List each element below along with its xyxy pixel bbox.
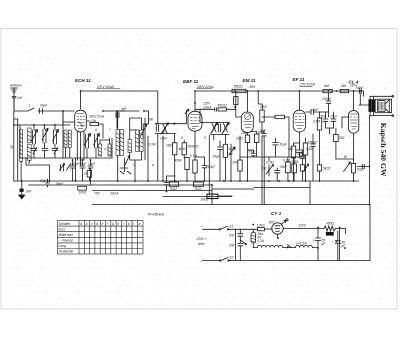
svg-text:55pF: 55pF	[79, 162, 87, 166]
svg-text:50pF: 50pF	[40, 179, 48, 183]
svg-text:0,1M: 0,1M	[267, 161, 274, 165]
svg-text:240V: 240V	[259, 105, 268, 109]
svg-text:1k: 1k	[84, 172, 88, 176]
svg-text:b: b	[139, 222, 141, 226]
svg-text:80V: 80V	[250, 85, 257, 89]
svg-text:30k: 30k	[233, 161, 239, 165]
svg-text:g: g	[112, 222, 114, 226]
svg-text:240V 22mA: 240V 22mA	[196, 85, 214, 89]
svg-text:170V 10mA: 170V 10mA	[97, 85, 114, 89]
svg-text:400k: 400k	[175, 159, 182, 163]
svg-text:EM 11: EM 11	[243, 78, 256, 83]
svg-text:0,1M: 0,1M	[306, 147, 313, 151]
svg-text:7kΩ2: 7kΩ2	[170, 187, 178, 191]
svg-text:2MΩ: 2MΩ	[235, 137, 243, 141]
svg-text:CY 1: CY 1	[271, 211, 282, 216]
svg-text:10µF: 10µF	[280, 143, 288, 147]
svg-text:E1: E1	[230, 225, 234, 229]
svg-text:50kΩ2: 50kΩ2	[218, 104, 228, 108]
svg-text:2: 2	[124, 161, 127, 165]
svg-text:Lang: Lang	[59, 244, 66, 248]
svg-text:5kΩ2: 5kΩ2	[323, 167, 331, 171]
svg-text:EBF 11: EBF 11	[183, 79, 199, 84]
svg-text:500: 500	[339, 136, 345, 140]
svg-text:110V: 110V	[299, 224, 307, 228]
svg-text:20µF: 20µF	[212, 155, 221, 159]
svg-text:0,3M: 0,3M	[291, 160, 298, 164]
svg-text:68nF: 68nF	[56, 182, 64, 186]
svg-text:+: +	[313, 239, 315, 243]
svg-text:1MΩ: 1MΩ	[166, 144, 173, 148]
svg-text:6: 6	[181, 136, 183, 140]
svg-text:50k: 50k	[148, 118, 154, 122]
svg-text:+50µF: +50µF	[206, 165, 216, 169]
svg-text:2nF: 2nF	[297, 152, 305, 156]
svg-text:0,2M: 0,2M	[229, 147, 236, 151]
svg-text:50kΩ2: 50kΩ2	[234, 85, 244, 89]
svg-text:450Ω: 450Ω	[326, 222, 334, 226]
svg-text:10M: 10M	[241, 131, 248, 135]
svg-text:0,1A: 0,1A	[258, 239, 265, 243]
svg-text:6k8: 6k8	[324, 84, 329, 88]
svg-text:4kΩ2: 4kΩ2	[178, 147, 186, 151]
svg-text:5k8: 5k8	[341, 84, 346, 88]
svg-text:30: 30	[10, 145, 14, 149]
svg-text:180V 2mA: 180V 2mA	[89, 115, 104, 119]
svg-text:10V 52mA: 10V 52mA	[300, 83, 315, 87]
svg-text:a: a	[152, 163, 154, 167]
svg-text:IF≈468 kHz: IF≈468 kHz	[148, 213, 165, 217]
svg-text:75V: 75V	[94, 192, 101, 196]
svg-text:0,1M: 0,1M	[190, 154, 197, 158]
svg-text:2k2: 2k2	[287, 147, 293, 151]
svg-text:a: a	[80, 222, 82, 226]
svg-text:1M: 1M	[262, 167, 267, 171]
svg-text:50nF: 50nF	[356, 86, 364, 90]
svg-text:3: 3	[133, 163, 135, 167]
svg-text:7: 7	[109, 128, 111, 132]
svg-text:100Ω: 100Ω	[79, 191, 87, 195]
svg-text:10nF: 10nF	[88, 162, 96, 166]
svg-text:6: 6	[95, 128, 97, 132]
svg-text:120Ω: 120Ω	[257, 224, 265, 228]
svg-text:Antenne: Antenne	[9, 84, 22, 88]
svg-text:500pF: 500pF	[308, 141, 318, 145]
svg-text:Mittel,kurz: Mittel,kurz	[59, 233, 74, 237]
svg-text:10nF: 10nF	[160, 137, 168, 141]
svg-text:Kapsch 540 GW: Kapsch 540 GW	[379, 123, 388, 177]
svg-text:ECH 11: ECH 11	[75, 78, 91, 83]
svg-text:Netz: Netz	[198, 242, 205, 246]
svg-text:EF 11: EF 11	[293, 77, 305, 82]
svg-text:1,1: 1,1	[104, 147, 109, 151]
svg-text:10nF: 10nF	[311, 108, 319, 112]
svg-text:+: +	[201, 225, 203, 229]
svg-text:+: +	[332, 240, 334, 244]
svg-text:1: 1	[29, 104, 31, 108]
svg-text:180°: 180°	[269, 221, 276, 225]
svg-text:12mA: 12mA	[203, 105, 211, 109]
svg-text:60pF: 60pF	[40, 104, 48, 108]
svg-text:500kΩ2: 500kΩ2	[188, 145, 199, 149]
svg-text:7kΩ2: 7kΩ2	[194, 187, 202, 191]
svg-text:Kurz: Kurz	[59, 228, 66, 232]
svg-text:2nF: 2nF	[16, 96, 24, 100]
svg-text:7kΩ2: 7kΩ2	[357, 168, 365, 172]
svg-text:0,1M: 0,1M	[149, 143, 156, 147]
svg-text:h: h	[117, 222, 119, 226]
svg-text:220V ≈: 220V ≈	[196, 237, 207, 241]
svg-text:E2: E2	[230, 256, 234, 260]
svg-text:0,3M: 0,3M	[283, 159, 290, 163]
svg-text:Tonblende: Tonblende	[59, 250, 74, 254]
svg-text:5: 5	[204, 136, 206, 140]
svg-text:10kΩ: 10kΩ	[201, 198, 209, 202]
svg-text:50pF: 50pF	[248, 150, 256, 154]
svg-text:100pF: 100pF	[322, 97, 332, 101]
svg-text:32mA: 32mA	[110, 192, 118, 196]
svg-text:- - Normal: - - Normal	[59, 239, 73, 243]
svg-text:30nF: 30nF	[280, 165, 288, 169]
svg-text:−: −	[201, 260, 203, 264]
svg-text:Schalter: Schalter	[59, 222, 72, 226]
svg-text:1M: 1M	[228, 152, 233, 156]
svg-text:e: e	[102, 222, 104, 226]
svg-text:b: b	[86, 222, 88, 226]
svg-text:U≈0,1A: U≈0,1A	[296, 241, 307, 245]
svg-text:d: d	[96, 222, 98, 226]
svg-text:0,5M: 0,5M	[313, 120, 320, 124]
svg-text:20k: 20k	[90, 119, 97, 123]
svg-text:10nF: 10nF	[330, 115, 338, 119]
